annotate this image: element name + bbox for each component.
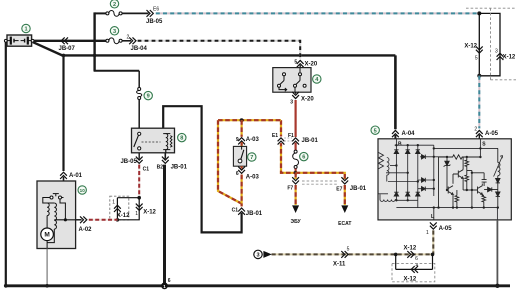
wire battery to main feed (diagonal) (33, 42, 62, 55)
connector relay JB-05 / C1 (138, 153, 140, 159)
svg-text:X-12: X-12 (143, 210, 156, 216)
svg-text:X-12: X-12 (404, 276, 417, 282)
svg-text:JB-07: JB-07 (59, 46, 76, 52)
circled 5 (371, 126, 379, 134)
svg-text:JB-01: JB-01 (350, 186, 367, 192)
svg-text:A-03: A-03 (246, 175, 260, 181)
node battery feed (93, 54, 97, 58)
wire JB-04 dashed (138, 41, 301, 59)
circled 7 (248, 153, 256, 161)
alternator rectifier diodes (394, 150, 425, 196)
connector A-04 (392, 130, 399, 137)
fuse 6 (293, 150, 299, 168)
fuse 2 (106, 11, 122, 17)
svg-text:9: 9 (236, 137, 239, 143)
svg-text:4: 4 (416, 263, 419, 269)
circled 4 (313, 75, 321, 83)
arrow to ECAT (341, 205, 348, 213)
svg-text:JB-01: JB-01 (302, 138, 319, 144)
connector pin 6 A-03 (241, 166, 243, 168)
connector boundary dashes (302, 180, 338, 182)
svg-text:6: 6 (168, 278, 171, 284)
connector C1 JB-01 (238, 208, 245, 215)
node orange branch (240, 118, 244, 122)
svg-text:A-05: A-05 (439, 226, 453, 232)
svg-text:A-03: A-03 (246, 137, 260, 143)
svg-text:6: 6 (302, 155, 305, 161)
wire JB-05 blue (156, 12, 480, 14)
wire relay coil to C1 (black) (163, 106, 241, 232)
wire main feed horizontal (62, 54, 396, 56)
wire A-04 drop (394, 55, 397, 129)
svg-text:1: 1 (112, 200, 115, 206)
alternator voltage regulator (434, 148, 503, 220)
svg-text:C1: C1 (232, 208, 239, 214)
wire B2 to ground (163, 165, 166, 286)
wire orange bottom to F7/E7 (296, 173, 345, 179)
svg-text:5: 5 (475, 56, 478, 62)
svg-text:3: 3 (256, 253, 259, 259)
svg-text:E1: E1 (272, 133, 278, 139)
wire tan X-11 horizontal (272, 253, 434, 255)
wire orange to ECU (296, 185, 345, 205)
svg-text:A-05: A-05 (485, 131, 499, 137)
node ST (294, 171, 298, 175)
svg-text:3: 3 (290, 99, 293, 105)
svg-text:JB-05: JB-05 (146, 19, 163, 25)
svg-text:ЭБУ: ЭБУ (291, 219, 302, 225)
svg-text:X-20: X-20 (305, 61, 318, 67)
wire battery negative (5, 42, 7, 286)
svg-text:6: 6 (236, 171, 239, 177)
connector L A-05 (430, 222, 437, 229)
fuse 9 (137, 88, 142, 100)
alternator 5 (378, 139, 511, 220)
wire red-white A-02 (89, 219, 118, 221)
svg-text:X-12: X-12 (464, 44, 477, 50)
battery 1 (4, 35, 34, 46)
wire red to node (295, 169, 297, 173)
svg-text:A-02: A-02 (79, 227, 93, 233)
svg-text:B: B (398, 142, 402, 148)
circled 6 (300, 152, 308, 160)
svg-text:X-12: X-12 (117, 213, 130, 219)
wire orange switch branch upper (241, 120, 243, 137)
alternator junction dots (395, 144, 499, 209)
svg-text:9: 9 (147, 94, 150, 100)
svg-text:5: 5 (374, 128, 377, 134)
svg-text:JB-01: JB-01 (246, 211, 263, 217)
connector X-11 (341, 251, 348, 258)
svg-text:X-20: X-20 (301, 97, 314, 103)
svg-text:M: M (44, 232, 49, 239)
circled 9 (144, 91, 152, 99)
wire starter ground (46, 249, 48, 286)
svg-text:8: 8 (180, 136, 183, 142)
svg-text:1: 1 (163, 284, 166, 289)
ground bus (6, 284, 510, 287)
relay 8 (132, 128, 175, 153)
svg-text:3: 3 (495, 48, 498, 54)
arrow to ECU (292, 205, 299, 213)
wire to connector E6 (122, 12, 148, 14)
fuse 3 (106, 38, 122, 44)
circled 8 (178, 133, 186, 141)
svg-text:A-01: A-01 (69, 173, 83, 179)
circled 10 (78, 186, 86, 194)
svg-text:1: 1 (24, 27, 27, 33)
wire fuse9 to relay (138, 100, 140, 129)
ignition switch 4 pin 5 (297, 60, 304, 67)
wire A-01 (62, 55, 64, 171)
svg-text:X-11: X-11 (333, 261, 346, 267)
svg-text:B2: B2 (157, 164, 164, 170)
connector E1 (272, 133, 292, 145)
connector F7 (292, 177, 299, 184)
wire red-white C1 (138, 165, 140, 198)
ignition switch 4 (273, 68, 311, 93)
svg-text:10: 10 (80, 188, 86, 193)
svg-text:3: 3 (113, 29, 116, 35)
svg-text:X-12: X-12 (503, 55, 516, 61)
wire tan L (432, 230, 434, 254)
wire orange top horizontal (218, 119, 281, 121)
connector B2 JB-01 (164, 153, 166, 159)
connector pin 9 A-03 (238, 138, 245, 145)
wire orange left loop (218, 120, 242, 203)
connector A-01 (60, 172, 67, 179)
wire JB-07 (34, 37, 106, 52)
svg-text:E6: E6 (153, 6, 159, 12)
connector X-12 starter side (110, 196, 157, 221)
starter motor 10 (37, 181, 76, 249)
wire alternator ground (496, 220, 498, 286)
svg-text:5: 5 (347, 246, 350, 252)
svg-text:E7: E7 (336, 187, 342, 193)
wire red ST (295, 100, 297, 137)
wire red below F1 (295, 143, 297, 151)
connector E7 JB-01 (341, 177, 348, 184)
circled 1 (22, 24, 30, 32)
circled 2 (110, 0, 118, 8)
svg-text:1: 1 (135, 211, 138, 217)
wire fuse riser (94, 12, 140, 87)
svg-text:7: 7 (250, 155, 253, 161)
svg-text:2: 2 (474, 127, 477, 133)
wire to connector JB-04 (122, 40, 131, 42)
svg-text:JB-01: JB-01 (171, 164, 188, 170)
svg-text:JB-04: JB-04 (131, 46, 148, 52)
svg-text:2: 2 (113, 2, 116, 8)
wire orange to C1 (241, 175, 243, 207)
svg-text:C1: C1 (143, 167, 150, 173)
connector F1 (292, 138, 299, 145)
svg-text:X-12: X-12 (404, 245, 417, 251)
svg-text:5: 5 (294, 59, 297, 65)
svg-text:ECAT: ECAT (338, 221, 351, 227)
svg-text:1: 1 (426, 230, 429, 236)
connector A-02 (76, 219, 82, 221)
connector X-12 top right (464, 8, 516, 80)
circled 3 (110, 27, 118, 35)
wire blue to alternator S (478, 76, 480, 129)
ignition switch 4 pin 3 (295, 92, 297, 94)
svg-text:6: 6 (415, 256, 418, 262)
wire orange E1 branch (281, 120, 294, 173)
clutch switch 7 (233, 146, 246, 166)
circled 3 source arrow (254, 250, 272, 258)
svg-text:JB-05: JB-05 (120, 159, 137, 165)
svg-text:F7: F7 (287, 186, 293, 192)
svg-text:A-04: A-04 (402, 131, 416, 137)
